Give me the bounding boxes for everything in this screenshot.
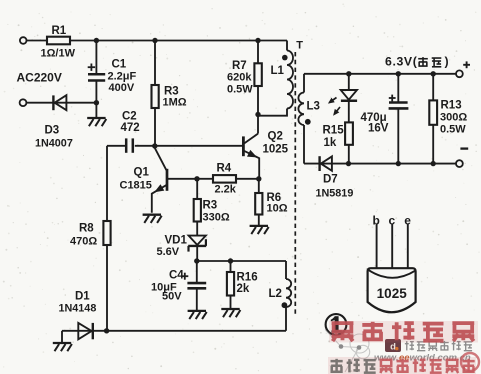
svg-text:): ) [445, 55, 449, 69]
svg-text:330Ω: 330Ω [203, 212, 230, 224]
svg-text:470Ω: 470Ω [70, 236, 97, 248]
svg-text:5.6V: 5.6V [157, 246, 180, 258]
svg-text:T: T [296, 40, 303, 52]
svg-text:6.3V(: 6.3V( [385, 55, 418, 69]
svg-text:c: c [388, 214, 395, 228]
svg-text:1N4148: 1N4148 [59, 303, 97, 315]
svg-text:2.2k: 2.2k [215, 184, 237, 196]
svg-text:R13: R13 [441, 100, 462, 112]
svg-text:b: b [373, 214, 380, 228]
svg-text:1025: 1025 [263, 144, 289, 156]
svg-text:1Ω/1W: 1Ω/1W [41, 48, 76, 60]
svg-text:R1: R1 [52, 25, 67, 37]
svg-text:R7: R7 [232, 60, 247, 72]
svg-text:R4: R4 [217, 163, 232, 175]
svg-text:1N5819: 1N5819 [316, 188, 354, 200]
svg-text:VD1: VD1 [165, 235, 188, 247]
svg-text:d: d [390, 342, 396, 353]
svg-text:0.5W: 0.5W [440, 124, 466, 136]
svg-text:C1: C1 [112, 59, 127, 71]
svg-text:620k: 620k [227, 72, 252, 84]
svg-text:1N4007: 1N4007 [35, 138, 73, 150]
svg-text:300Ω: 300Ω [440, 112, 467, 124]
svg-text:2k: 2k [237, 283, 250, 295]
svg-text:AC220V: AC220V [17, 71, 62, 85]
svg-text:1MΩ: 1MΩ [163, 97, 187, 109]
svg-text:472: 472 [121, 122, 140, 134]
svg-text:C1815: C1815 [120, 180, 152, 192]
svg-text:16V: 16V [368, 123, 389, 135]
svg-text:e: e [404, 214, 411, 228]
svg-text:D7: D7 [323, 174, 338, 186]
svg-text:1025: 1025 [377, 286, 408, 301]
svg-text:10Ω: 10Ω [267, 203, 288, 215]
svg-text:R16: R16 [237, 272, 258, 284]
svg-text:C4: C4 [169, 270, 184, 282]
svg-text:0.5W: 0.5W [227, 84, 253, 96]
svg-text:D1: D1 [75, 291, 90, 303]
svg-text:L3: L3 [307, 101, 320, 113]
svg-text:L1: L1 [271, 65, 285, 77]
svg-text:R8: R8 [79, 223, 94, 235]
svg-text:2.2μF: 2.2μF [108, 71, 137, 83]
svg-text:L2: L2 [269, 288, 282, 300]
svg-text:Q2: Q2 [268, 131, 283, 143]
svg-text:R3: R3 [203, 200, 218, 212]
svg-text:D3: D3 [45, 125, 60, 137]
svg-text:400V: 400V [109, 82, 135, 94]
svg-text:50V: 50V [162, 291, 182, 303]
svg-text:C2: C2 [122, 111, 137, 123]
svg-text:1k: 1k [324, 137, 337, 149]
svg-text:R15: R15 [323, 125, 345, 137]
svg-text:Q1: Q1 [134, 167, 150, 179]
